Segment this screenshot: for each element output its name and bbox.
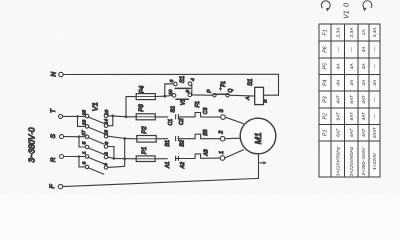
svg-text:N: N <box>50 72 57 77</box>
svg-text:M1: M1 <box>253 132 263 144</box>
node terminal 2 <box>219 131 225 141</box>
contact 1-2 <box>82 151 110 164</box>
svg-text:P3: P3 <box>323 96 329 102</box>
wire T output to P3 <box>113 115 136 118</box>
wire riser to P4 <box>126 97 136 117</box>
svg-text:C2: C2 <box>179 118 185 125</box>
svg-text:4AT: 4AT <box>361 128 367 138</box>
svg-text:4AT: 4AT <box>361 94 367 104</box>
svg-text:A1: A1 <box>165 162 171 169</box>
svg-text:F1: F1 <box>195 101 201 107</box>
svg-text:B3: B3 <box>203 129 209 135</box>
svg-text:P4: P4 <box>140 85 146 93</box>
svg-text:Q: Q <box>228 89 234 93</box>
svg-text:13: 13 <box>82 120 88 126</box>
svg-text:16: 16 <box>104 110 110 116</box>
svg-text:6AT: 6AT <box>349 94 355 104</box>
node N terminal <box>50 72 63 77</box>
svg-text:P1: P1 <box>323 130 329 136</box>
fuse P2 <box>137 126 156 142</box>
link C1-C2 <box>168 115 185 126</box>
svg-text:18: 18 <box>103 130 109 136</box>
wire N line <box>63 73 278 75</box>
svg-text:V1 0: V1 0 <box>343 3 350 19</box>
svg-text:S1: S1 <box>171 106 177 113</box>
wire T to switch <box>63 115 78 117</box>
svg-text:B1: B1 <box>165 140 171 146</box>
table values column 3x380-500V <box>361 30 367 176</box>
wire 6 output <box>108 147 114 159</box>
wire terminal 3 to motor <box>225 117 243 123</box>
contact S1 3-4 <box>169 76 196 89</box>
svg-text:F1: F1 <box>221 81 227 87</box>
svg-text:4A: 4A <box>335 80 341 86</box>
wire control line P4 to S1 <box>155 96 172 97</box>
wire 2 output to P1 <box>108 157 136 159</box>
svg-text:4A: 4A <box>361 47 367 53</box>
svg-text:2: 2 <box>104 152 110 156</box>
svg-text:4A: 4A <box>335 63 341 69</box>
svg-text:3×220V/60Hz: 3×220V/60Hz <box>349 146 355 176</box>
svg-text:S1: S1 <box>180 76 186 83</box>
svg-text:6AT: 6AT <box>335 111 341 121</box>
switch V1 pole T wires <box>78 115 88 117</box>
svg-text:—: — <box>350 47 355 53</box>
svg-text:4AT: 4AT <box>335 94 341 104</box>
svg-text:5: 5 <box>82 141 88 144</box>
wire F bottom line to motor PE <box>63 154 259 187</box>
svg-text:1: 1 <box>82 151 88 154</box>
svg-text:3: 3 <box>82 161 88 164</box>
wire line1 P1 to terminal 1 <box>155 158 167 160</box>
svg-text:4: 4 <box>190 78 196 81</box>
contact V1 10-9 <box>168 89 192 105</box>
wire line3 P3 to terminal 3 <box>155 116 168 118</box>
contact 3-4 <box>82 161 110 174</box>
svg-text:10AT: 10AT <box>372 126 378 138</box>
wire terminal 1 to motor <box>225 150 244 158</box>
svg-text:3×380–500V: 3×380–500V <box>361 147 367 176</box>
wire N drop to S1 <box>264 74 279 95</box>
svg-text:—: — <box>336 47 341 53</box>
contact 15-16 <box>82 110 110 124</box>
switch body S1 <box>245 79 268 105</box>
node R terminal <box>50 155 63 163</box>
node S terminal <box>50 133 64 138</box>
svg-text:4A: 4A <box>372 80 378 86</box>
fuse P4 <box>136 85 155 99</box>
wire S to switch <box>64 136 80 138</box>
svg-text:P1: P1 <box>142 147 148 154</box>
svg-text:4A: 4A <box>361 63 367 69</box>
svg-text:6: 6 <box>104 142 110 145</box>
node F terminal <box>49 183 63 188</box>
symbol rotation direction left <box>321 1 330 12</box>
svg-text:14: 14 <box>103 119 109 125</box>
svg-text:F1: F1 <box>323 29 329 35</box>
wire terminal 2 to motor <box>225 137 240 140</box>
svg-text:P6: P6 <box>323 46 329 52</box>
wire 4 output riser to P2 line <box>108 139 125 168</box>
svg-text:4A: 4A <box>361 80 367 86</box>
symbol rotation direction right <box>363 1 372 12</box>
svg-text:A3: A3 <box>204 149 210 156</box>
svg-text:—: — <box>373 64 378 70</box>
table values column 3x220V/60Hz <box>349 28 355 177</box>
PE arrow <box>260 161 267 164</box>
svg-text:—: — <box>373 47 378 53</box>
fuse P1 <box>136 147 155 162</box>
wire 18 output to P2 <box>108 136 137 139</box>
wire 9 to P contact <box>192 94 213 96</box>
svg-text:P4: P4 <box>323 80 329 86</box>
svg-text:6AT: 6AT <box>349 111 355 121</box>
contact P-Q overload trip <box>207 81 234 97</box>
svg-text:3,4A: 3,4A <box>372 28 378 38</box>
svg-text:P3: P3 <box>139 104 145 112</box>
table values column 1x220V <box>372 28 378 170</box>
svg-text:4A: 4A <box>349 63 355 69</box>
svg-text:9: 9 <box>185 90 191 93</box>
link A1-A2 <box>165 156 186 169</box>
table values column 3x220V/50Hz <box>335 28 341 177</box>
svg-text:4A: 4A <box>349 80 355 86</box>
svg-text:B2: B2 <box>180 140 186 146</box>
svg-text:A: A <box>245 97 251 101</box>
contact 17-18 <box>81 130 109 144</box>
svg-text:1A: 1A <box>361 30 367 36</box>
svg-text:2,3A: 2,3A <box>335 28 341 39</box>
motor M1 <box>240 118 276 154</box>
svg-text:C1: C1 <box>168 119 174 126</box>
svg-text:P5: P5 <box>323 63 329 69</box>
svg-text:6AT: 6AT <box>349 128 355 138</box>
node T terminal <box>50 108 63 118</box>
svg-text:3: 3 <box>169 79 175 82</box>
svg-text:R: R <box>50 157 57 162</box>
wire Q to S1 box <box>229 94 254 97</box>
contact 5-6 <box>82 141 110 154</box>
svg-text:1: 1 <box>219 151 225 154</box>
node terminal 1 <box>219 151 225 160</box>
svg-text:2: 2 <box>219 131 225 135</box>
svg-text:C3: C3 <box>203 107 209 114</box>
svg-text:P2: P2 <box>323 113 329 119</box>
node terminal 3 <box>219 108 225 119</box>
svg-text:S: S <box>50 133 57 138</box>
table grid <box>319 24 380 177</box>
svg-text:—: — <box>373 97 378 103</box>
wire T outputs join <box>108 116 113 126</box>
switch V1 pole S wires <box>79 136 87 138</box>
wire R to switch <box>64 156 80 158</box>
wire S1 bypass <box>165 84 174 96</box>
svg-text:—: — <box>373 114 378 120</box>
svg-text:10: 10 <box>168 89 174 95</box>
svg-text:S1: S1 <box>248 79 254 86</box>
svg-text:3~380V·0: 3~380V·0 <box>28 127 37 162</box>
svg-text:15: 15 <box>82 110 88 116</box>
link B1-B2 <box>165 136 186 146</box>
svg-text:3×220V/50Hz: 3×220V/50Hz <box>335 146 341 176</box>
svg-text:4AT: 4AT <box>361 111 367 121</box>
switch V1 pole R wires <box>79 156 87 158</box>
svg-text:17: 17 <box>81 130 87 136</box>
svg-text:V1: V1 <box>91 102 100 111</box>
svg-text:V1: V1 <box>181 99 187 106</box>
table header column <box>323 29 329 136</box>
svg-text:1×220V: 1×220V <box>372 152 378 170</box>
svg-text:4: 4 <box>103 163 109 166</box>
svg-text:2,3A: 2,3A <box>349 28 355 39</box>
fuse P3 <box>136 104 155 120</box>
svg-text:6AT: 6AT <box>335 128 341 138</box>
svg-text:P2: P2 <box>142 126 148 134</box>
contact 13-14 <box>82 119 110 134</box>
wire line2 P2 to terminal 2 <box>156 138 168 140</box>
svg-text:A2: A2 <box>180 162 186 169</box>
